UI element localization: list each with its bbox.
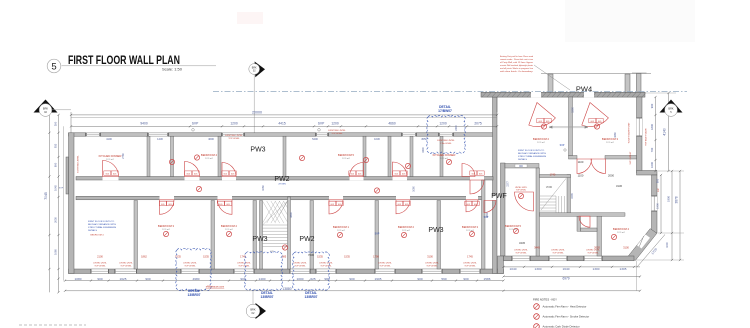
partition top row 3 bbox=[218, 136, 221, 176]
svg-text:LINTEL UNTIL: LINTEL UNTIL bbox=[319, 263, 333, 265]
top overall dim 20000 bbox=[71, 114, 497, 116]
svg-text:1430: 1430 bbox=[157, 137, 163, 141]
svg-text:1080: 1080 bbox=[75, 277, 82, 281]
fire alarm symbol 13 bbox=[594, 124, 599, 129]
lintel note top wall a bbox=[225, 135, 243, 140]
svg-text:1060: 1060 bbox=[262, 185, 265, 191]
svg-text:985: 985 bbox=[282, 254, 287, 258]
svg-text:1305: 1305 bbox=[620, 267, 627, 271]
svg-text:LINTEL UNTIL: LINTEL UNTIL bbox=[551, 250, 565, 252]
svg-text:935: 935 bbox=[53, 143, 57, 148]
svg-text:SVP INLET VALVE: SVP INLET VALVE bbox=[645, 128, 648, 146]
svg-text:TOP LEVEL: TOP LEVEL bbox=[228, 138, 240, 140]
svg-text:TOP LEVEL: TOP LEVEL bbox=[426, 266, 438, 268]
fire alarm symbol 14 bbox=[611, 234, 616, 239]
svg-text:3100: 3100 bbox=[623, 245, 629, 249]
svg-text:TOP LEVEL: TOP LEVEL bbox=[184, 266, 196, 268]
stair treads bbox=[263, 225, 288, 247]
svg-text:STRUCTURAL ENGINEERS: STRUCTURAL ENGINEERS bbox=[518, 155, 547, 158]
right unit bottom wall bbox=[504, 256, 635, 261]
faint pink highlight bbox=[237, 12, 263, 24]
svg-text:900: 900 bbox=[650, 103, 654, 108]
svg-text:12.9 m2: 12.9 m2 bbox=[466, 230, 474, 232]
svg-text:300: 300 bbox=[53, 121, 57, 126]
svg-text:TOP LEVEL: TOP LEVEL bbox=[464, 266, 476, 268]
window top 5 bbox=[402, 133, 416, 136]
revision cloud bbox=[245, 252, 283, 290]
window unit2 bottom 3 bbox=[584, 256, 602, 261]
svg-text:1625: 1625 bbox=[120, 277, 127, 281]
window top 6 bbox=[439, 133, 453, 136]
revision cloud bbox=[293, 252, 330, 290]
window bottom 2 bbox=[115, 269, 137, 274]
svg-text:TOP LEVEL: TOP LEVEL bbox=[294, 266, 306, 268]
left wing left wall bbox=[69, 133, 75, 274]
fire alarm symbol 19 bbox=[405, 163, 410, 168]
top chain extension verticals bbox=[70, 112, 72, 133]
svg-text:with skim finish. On boundary.: with skim finish. On boundary. bbox=[500, 70, 534, 73]
svg-text:SVP: SVP bbox=[560, 144, 565, 147]
svg-text:PW3: PW3 bbox=[252, 236, 267, 243]
svg-text:12.9 m2: 12.9 m2 bbox=[402, 230, 410, 232]
partition bottom row 6 bbox=[437, 201, 441, 270]
svg-text:TOP LEVEL: TOP LEVEL bbox=[120, 266, 132, 268]
partition bottom row 4 bbox=[310, 201, 314, 270]
svg-text:cement render - 15mm thick coa: cement render - 15mm thick coat in turn bbox=[500, 58, 534, 61]
pier above PW4 left bbox=[548, 74, 553, 92]
svg-text:12.9 m2: 12.9 m2 bbox=[106, 159, 114, 161]
door 4 bbox=[350, 163, 364, 177]
partition top row 4 bbox=[283, 136, 286, 176]
svg-text:4660: 4660 bbox=[388, 122, 396, 126]
svg-text:1200: 1200 bbox=[230, 122, 238, 126]
svg-text:TOP LEVEL: TOP LEVEL bbox=[515, 253, 527, 255]
door 16 bbox=[579, 216, 590, 227]
svg-text:1060: 1060 bbox=[413, 186, 416, 192]
door 7 bbox=[160, 200, 175, 215]
door 1 bbox=[103, 161, 119, 177]
lintel notes unit2 bottom bbox=[514, 250, 528, 255]
svg-text:3445: 3445 bbox=[519, 241, 525, 245]
svg-text:1300: 1300 bbox=[593, 267, 600, 271]
svg-text:1862: 1862 bbox=[141, 254, 147, 258]
svg-text:12.9 m2: 12.9 m2 bbox=[225, 229, 233, 231]
svg-text:TOP LEVEL: TOP LEVEL bbox=[320, 266, 332, 268]
svg-text:BEDROOM 1: BEDROOM 1 bbox=[333, 225, 350, 229]
svg-text:LINTEL UNTIL: LINTEL UNTIL bbox=[183, 263, 197, 265]
svg-text:12.9 m2: 12.9 m2 bbox=[606, 142, 614, 144]
bedroom1 left wall bbox=[597, 216, 602, 256]
svg-text:Automatic Carb Diode Detector: Automatic Carb Diode Detector bbox=[543, 325, 580, 328]
svg-text:1200: 1200 bbox=[331, 122, 339, 126]
door 8 bbox=[218, 200, 233, 215]
svg-text:4600: 4600 bbox=[208, 137, 214, 141]
svg-text:17/BW07: 17/BW07 bbox=[438, 109, 452, 113]
svg-text:BEDROOM 3: BEDROOM 3 bbox=[462, 225, 479, 229]
corridor wall upper bbox=[76, 177, 493, 181]
section marker left bbox=[34, 100, 72, 117]
pier above PW4 right bbox=[625, 74, 630, 92]
fire alarm symbol 10 bbox=[282, 245, 287, 250]
svg-text:1535: 1535 bbox=[344, 254, 350, 258]
svg-text:PWF: PWF bbox=[491, 193, 507, 200]
svg-text:BE IN ACCORDANCE WITH: BE IN ACCORDANCE WITH bbox=[518, 152, 546, 155]
window bottom 1 bbox=[91, 269, 109, 274]
svg-text:3878: 3878 bbox=[675, 196, 679, 203]
svg-text:4140: 4140 bbox=[663, 128, 667, 136]
svg-text:SVP: SVP bbox=[658, 187, 660, 192]
fire alarm symbol 9 bbox=[469, 231, 474, 236]
svg-text:1900: 1900 bbox=[656, 203, 660, 209]
svg-text:BE IN ACCORDANCE WITH: BE IN ACCORDANCE WITH bbox=[88, 223, 116, 226]
svg-text:13/BR07: 13/BR07 bbox=[260, 295, 273, 299]
svg-text:4280: 4280 bbox=[614, 132, 617, 138]
diagonal dim 1720 bbox=[637, 235, 665, 268]
stair hall wall bbox=[536, 168, 540, 256]
fire alarm symbol 2 bbox=[299, 155, 304, 160]
svg-text:900: 900 bbox=[97, 277, 102, 281]
faint edge line bottom left bbox=[19, 324, 86, 326]
svg-text:PW3: PW3 bbox=[428, 227, 443, 234]
party wall note leader bbox=[500, 55, 534, 73]
fire alarm symbol 8 bbox=[401, 232, 406, 237]
svg-text:2075: 2075 bbox=[474, 122, 482, 126]
svg-text:BEDROOM 4: BEDROOM 4 bbox=[613, 227, 630, 231]
svg-text:1535: 1535 bbox=[317, 254, 323, 258]
door 11 bbox=[466, 200, 478, 212]
fire alarm symbol 16 bbox=[374, 188, 379, 193]
unit2 bottom chain bbox=[504, 266, 641, 268]
svg-text:Automatic Fire Alarm - Smoke D: Automatic Fire Alarm - Smoke Detector bbox=[543, 315, 590, 319]
right vertical chains bbox=[655, 97, 657, 171]
svg-text:2620: 2620 bbox=[594, 245, 600, 249]
section marker top bbox=[249, 62, 265, 133]
svg-text:LINTEL UNTIL: LINTEL UNTIL bbox=[293, 263, 307, 265]
door 13 bbox=[577, 159, 592, 174]
svg-text:1905: 1905 bbox=[375, 277, 382, 281]
svg-text:1400: 1400 bbox=[259, 277, 266, 281]
door 14 bbox=[591, 159, 606, 174]
joist note unit2 bbox=[518, 150, 547, 161]
svg-text:1100: 1100 bbox=[578, 160, 584, 164]
section marker bottom bbox=[246, 291, 266, 319]
svg-text:and all joints. Works in progr: and all joints. Works in progress line bbox=[500, 67, 534, 70]
svg-text:Scale: 1:50: Scale: 1:50 bbox=[162, 67, 183, 72]
PW4 door gaps bbox=[531, 92, 594, 97]
svg-text:12.9 m2: 12.9 m2 bbox=[205, 158, 213, 160]
svg-text:13/BR07: 13/BR07 bbox=[187, 293, 200, 297]
svg-text:TOILET VALVES UNIT: TOILET VALVES UNIT bbox=[628, 122, 631, 144]
right wall window bbox=[637, 118, 643, 136]
window bottom 6 bbox=[316, 269, 336, 274]
partition top row 2 bbox=[171, 136, 174, 176]
svg-text:2100: 2100 bbox=[97, 254, 103, 258]
window bottom 3 bbox=[181, 269, 199, 274]
diagonal window bbox=[637, 235, 650, 249]
svg-text:PW2: PW2 bbox=[299, 236, 314, 243]
svg-text:BEDROOM 4: BEDROOM 4 bbox=[90, 235, 104, 237]
svg-text:2000: 2000 bbox=[608, 174, 614, 178]
svg-text:900: 900 bbox=[145, 277, 150, 281]
svg-text:TOP LEVEL: TOP LEVEL bbox=[552, 253, 564, 255]
svg-text:LINTEL UNTIL: LINTEL UNTIL bbox=[119, 263, 133, 265]
svg-text:TOP LEVEL: TOP LEVEL bbox=[516, 190, 526, 192]
svg-text:BRK: BRK bbox=[250, 307, 256, 311]
lintel notes bottom bbox=[93, 263, 107, 268]
door 2 bbox=[185, 162, 200, 177]
svg-text:TOP LEVEL: TOP LEVEL bbox=[587, 253, 599, 255]
window unit2 bottom 1 bbox=[512, 256, 530, 261]
left vertical chain bbox=[48, 115, 50, 292]
svg-text:5: 5 bbox=[51, 61, 56, 72]
svg-text:1200: 1200 bbox=[439, 122, 447, 126]
svg-text:KITCHEN DINNER: KITCHEN DINNER bbox=[99, 154, 122, 158]
svg-text:3800: 3800 bbox=[290, 212, 293, 218]
svg-text:4550: 4550 bbox=[421, 137, 427, 141]
svg-text:3100: 3100 bbox=[427, 254, 433, 258]
party wall bbox=[493, 97, 498, 274]
svg-text:FIRST FLOOR JOISTS TO: FIRST FLOOR JOISTS TO bbox=[518, 150, 545, 152]
svg-text:7045: 7045 bbox=[44, 192, 48, 200]
fan door bedroom2 bbox=[529, 103, 556, 127]
svg-text:BEDROOM 4: BEDROOM 4 bbox=[201, 153, 218, 157]
right unit right wall B bbox=[652, 175, 658, 233]
svg-text:FIRST FLOOR JOISTS TO: FIRST FLOOR JOISTS TO bbox=[88, 221, 115, 223]
lintel note top wall b bbox=[328, 130, 346, 135]
door 12 bbox=[470, 180, 484, 194]
closet walls bbox=[577, 216, 581, 231]
window top 2 bbox=[148, 133, 168, 136]
door 3 bbox=[222, 163, 236, 177]
fire notes legend bbox=[533, 298, 589, 328]
svg-text:TOP LEVEL: TOP LEVEL bbox=[238, 266, 250, 268]
svg-text:STRUCTURAL ENGINEERS: STRUCTURAL ENGINEERS bbox=[88, 226, 117, 229]
partition bottom row 1 bbox=[134, 201, 138, 270]
svg-text:SVP: SVP bbox=[375, 233, 380, 236]
fire alarm symbol 1 bbox=[194, 155, 199, 160]
title underline bbox=[62, 65, 217, 67]
svg-text:of Party Wall, with 12.5mm Gyp: of Party Wall, with 12.5mm Gyproc bbox=[500, 61, 533, 64]
window top 3 bbox=[222, 133, 244, 136]
window bottom 9 bbox=[460, 269, 480, 274]
svg-text:LINTEL UNTIL: LINTEL UNTIL bbox=[586, 250, 600, 252]
svg-text:Existing Party wall to have 15: Existing Party wall to have 15mm sand bbox=[500, 55, 534, 58]
svg-text:1030: 1030 bbox=[374, 137, 380, 141]
window bottom 4 bbox=[234, 269, 254, 274]
svg-text:LINTEL UNTIL: LINTEL UNTIL bbox=[93, 263, 107, 265]
bedroom3 south wall left bbox=[569, 156, 578, 160]
door 6 bbox=[462, 164, 475, 177]
svg-text:1900: 1900 bbox=[667, 196, 671, 202]
partition top row 8 bbox=[440, 136, 443, 176]
svg-text:2 No LEVEL: 2 No LEVEL bbox=[440, 143, 452, 145]
svg-text:4980: 4980 bbox=[193, 277, 200, 281]
svg-text:13880: 13880 bbox=[282, 287, 291, 291]
partition bottom row 2 bbox=[211, 201, 215, 270]
svg-text:1000: 1000 bbox=[297, 277, 304, 281]
left wing bottom wall bbox=[69, 269, 504, 274]
door 15 bbox=[515, 192, 534, 211]
window top 4 bbox=[316, 133, 328, 136]
svg-text:EXISTING LINTEL: EXISTING LINTEL bbox=[78, 154, 80, 172]
left wall pier bbox=[66, 157, 69, 194]
svg-text:EXISTING LINTEL: EXISTING LINTEL bbox=[225, 135, 243, 137]
title circle 5 bbox=[47, 59, 61, 73]
fire alarm symbol 17 bbox=[196, 186, 201, 191]
revision cloud bbox=[427, 116, 465, 154]
partition top row 7 bbox=[410, 136, 413, 176]
svg-text:SVP: SVP bbox=[192, 122, 199, 126]
fire alarm symbol 6 bbox=[226, 231, 231, 236]
fire alarm symbol 3 bbox=[363, 157, 368, 162]
svg-text:2/TONN: 2/TONN bbox=[278, 184, 286, 186]
partition bottom row 5 bbox=[375, 201, 379, 270]
svg-text:BEDROOM 2: BEDROOM 2 bbox=[221, 224, 238, 228]
svp markers bbox=[192, 129, 195, 132]
svg-text:1535: 1535 bbox=[571, 193, 574, 199]
svg-text:BEDROOM 3: BEDROOM 3 bbox=[158, 224, 175, 228]
svg-text:KITCHEN DINNER: KITCHEN DINNER bbox=[433, 153, 456, 157]
svg-text:TOP LEVEL: TOP LEVEL bbox=[94, 266, 106, 268]
svg-text:900: 900 bbox=[463, 277, 468, 281]
svg-text:4100: 4100 bbox=[106, 137, 112, 141]
svg-text:1500: 1500 bbox=[572, 107, 575, 113]
window top 1 bbox=[86, 133, 100, 136]
svg-text:12.9 m2: 12.9 m2 bbox=[440, 158, 448, 160]
svg-text:3400: 3400 bbox=[422, 147, 425, 153]
svg-text:PW4: PW4 bbox=[576, 85, 592, 94]
fire alarm symbol 7 bbox=[337, 232, 342, 237]
left wing top wall bbox=[69, 133, 494, 136]
svg-text:12.9 m2: 12.9 m2 bbox=[162, 229, 170, 231]
stair treads unit2 bbox=[540, 179, 566, 213]
svg-text:1640: 1640 bbox=[563, 267, 570, 271]
datum dash line bbox=[213, 91, 687, 93]
bottom dim chain left wing bbox=[65, 280, 504, 282]
svg-text:4600: 4600 bbox=[486, 212, 489, 218]
window bottom 8 bbox=[422, 269, 442, 274]
window bottom 5 bbox=[290, 269, 310, 274]
svg-text:TOP LEVEL: TOP LEVEL bbox=[379, 266, 391, 268]
svg-text:12.9 m2: 12.9 m2 bbox=[537, 142, 545, 144]
right unit right wall A bbox=[637, 97, 643, 173]
door openings corridor walls bbox=[103, 176, 119, 180]
faint gray smudge bbox=[565, 0, 695, 42]
door 10 bbox=[396, 200, 410, 214]
beam line bedroom2/3 bbox=[549, 126, 588, 128]
right unit step wall bbox=[637, 171, 658, 176]
window bottom 7 bbox=[375, 269, 395, 274]
svg-text:EXISTING LINTEL: EXISTING LINTEL bbox=[437, 140, 455, 142]
right extension lines bbox=[645, 92, 676, 94]
fire alarm symbol 18 bbox=[169, 159, 174, 164]
partition top row 1 bbox=[147, 136, 150, 176]
svg-text:600: 600 bbox=[656, 178, 660, 183]
svg-text:625: 625 bbox=[310, 277, 315, 281]
hall partition left wing bbox=[482, 180, 486, 269]
bottom overall 13880 bbox=[65, 290, 640, 292]
door 17 bbox=[484, 201, 496, 213]
bedroom2 south wall bbox=[505, 164, 539, 169]
svg-text:LINTEL UNTIL: LINTEL UNTIL bbox=[425, 263, 439, 265]
svg-text:TOP LEVEL: TOP LEVEL bbox=[331, 133, 343, 135]
bottom jog wall bbox=[498, 256, 504, 274]
svg-text:VOID: VOID bbox=[546, 185, 552, 189]
svg-text:2030: 2030 bbox=[53, 217, 57, 223]
svg-text:BEDROOM 2: BEDROOM 2 bbox=[533, 137, 550, 141]
joist note left wing bbox=[88, 221, 117, 232]
svg-text:1060: 1060 bbox=[53, 249, 57, 255]
svg-text:1100: 1100 bbox=[578, 174, 584, 178]
svg-text:SVP: SVP bbox=[318, 122, 325, 126]
svg-text:PW2: PW2 bbox=[274, 176, 289, 183]
stair box right wall bbox=[567, 175, 571, 216]
svg-text:1740: 1740 bbox=[550, 173, 556, 177]
svg-text:6979: 6979 bbox=[562, 276, 569, 280]
svg-text:1790: 1790 bbox=[373, 254, 379, 258]
svg-text:1800: 1800 bbox=[650, 124, 654, 130]
svg-text:900: 900 bbox=[417, 277, 422, 281]
section marker right bbox=[660, 100, 683, 117]
svg-text:9400: 9400 bbox=[140, 122, 148, 126]
top dim chain bbox=[71, 125, 497, 127]
party wall second leaf bbox=[501, 163, 506, 256]
fire alarm symbol 15 bbox=[518, 193, 523, 198]
svg-text:1000: 1000 bbox=[650, 162, 654, 168]
right unit diagonal wall bbox=[629, 229, 657, 261]
svg-text:PW3: PW3 bbox=[250, 147, 265, 154]
svg-text:3445: 3445 bbox=[534, 245, 540, 249]
bedroom divider wall bbox=[569, 97, 573, 156]
svg-text:590: 590 bbox=[441, 277, 446, 281]
svg-text:5400: 5400 bbox=[312, 137, 318, 141]
top right corner pier bbox=[636, 73, 641, 91]
window unit2 bottom 2 bbox=[549, 256, 567, 261]
partition top row 6 bbox=[388, 136, 391, 176]
svg-text:acoustic Wall insulated, light: acoustic Wall insulated, lightweight pla… bbox=[500, 64, 533, 67]
svg-text:1586: 1586 bbox=[484, 277, 491, 281]
svg-text:LINTEL UNTIL: LINTEL UNTIL bbox=[514, 250, 528, 252]
svg-text:900: 900 bbox=[349, 277, 354, 281]
svg-text:LINTEL UNTIL: LINTEL UNTIL bbox=[378, 263, 392, 265]
svg-text:2780: 2780 bbox=[122, 153, 125, 159]
svg-text:12.9 m2: 12.9 m2 bbox=[337, 230, 345, 232]
svg-text:Automatic Fire Alarm - Heat De: Automatic Fire Alarm - Heat Detector bbox=[543, 305, 587, 309]
svg-text:12.9 m2: 12.9 m2 bbox=[342, 158, 350, 160]
svg-text:BEDROOM 2: BEDROOM 2 bbox=[398, 225, 415, 229]
partition bottom row 3 bbox=[253, 201, 257, 270]
svg-text:13/BR07: 13/BR07 bbox=[304, 295, 317, 299]
svg-text:BEDROOM 5: BEDROOM 5 bbox=[505, 224, 522, 228]
svg-text:1045: 1045 bbox=[53, 185, 57, 191]
svg-text:2277: 2277 bbox=[507, 181, 510, 187]
svg-text:EXISTING LINTEL: EXISTING LINTEL bbox=[328, 130, 346, 132]
stair box top wall bbox=[540, 175, 571, 178]
stair hatch bbox=[263, 201, 288, 225]
svg-text:BEDROOM 5: BEDROOM 5 bbox=[338, 153, 355, 157]
svg-text:1535: 1535 bbox=[203, 254, 209, 258]
svg-text:FIRST FLOOR WALL PLAN: FIRST FLOOR WALL PLAN bbox=[68, 55, 180, 67]
right wall B window bbox=[652, 196, 658, 211]
svg-text:DETAILS: DETAILS bbox=[88, 229, 97, 232]
party wall PW4 top (hatched) bbox=[481, 92, 645, 97]
fire alarm symbol 5 bbox=[163, 231, 168, 236]
svg-text:12.9 m2: 12.9 m2 bbox=[617, 232, 625, 234]
stair walls left wing bbox=[260, 201, 263, 270]
existing building line above PW4 bbox=[541, 73, 651, 75]
svg-text:1000: 1000 bbox=[666, 242, 669, 248]
bedroom3 south wall right bbox=[605, 156, 637, 160]
